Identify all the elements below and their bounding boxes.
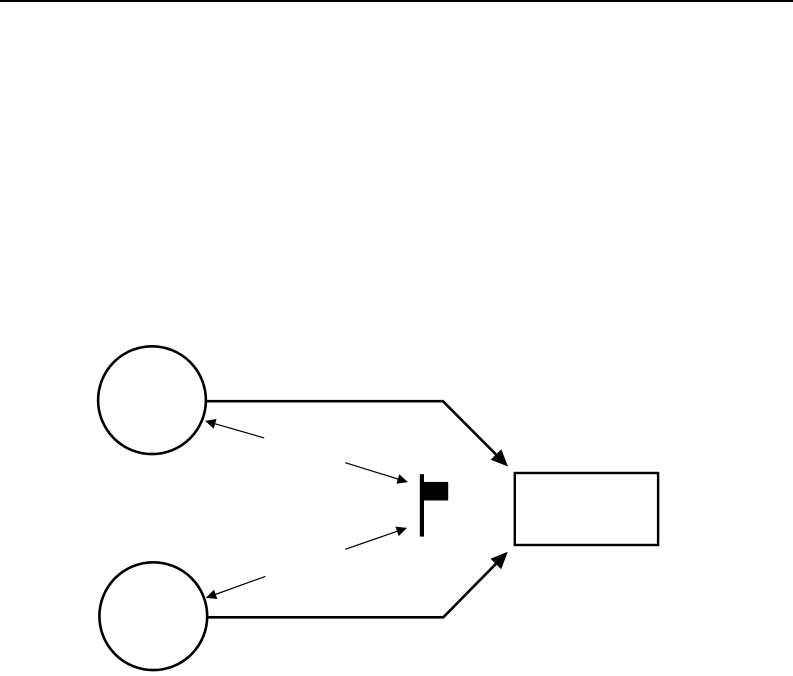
node circle top (state 1) (98, 346, 206, 454)
annotation arrow to flag top (345, 463, 401, 480)
arrowhead of top connector (491, 449, 508, 466)
wire bottom connector from circle 2 to rectangle (208, 560, 500, 618)
arrowhead of bottom connector (491, 552, 508, 569)
annotation arrow to bottom circle (212, 576, 265, 595)
node circle bottom (state 2) (99, 562, 207, 670)
flag symbol pole (420, 474, 424, 536)
flag symbol banner (424, 482, 448, 501)
wire top connector from circle 1 to rectangle (207, 401, 501, 459)
annotation arrow to flag bottom (345, 530, 400, 549)
top page-edge black bar (0, 0, 793, 2)
process rectangle (515, 473, 658, 545)
annotation arrow to top circle (212, 423, 265, 438)
